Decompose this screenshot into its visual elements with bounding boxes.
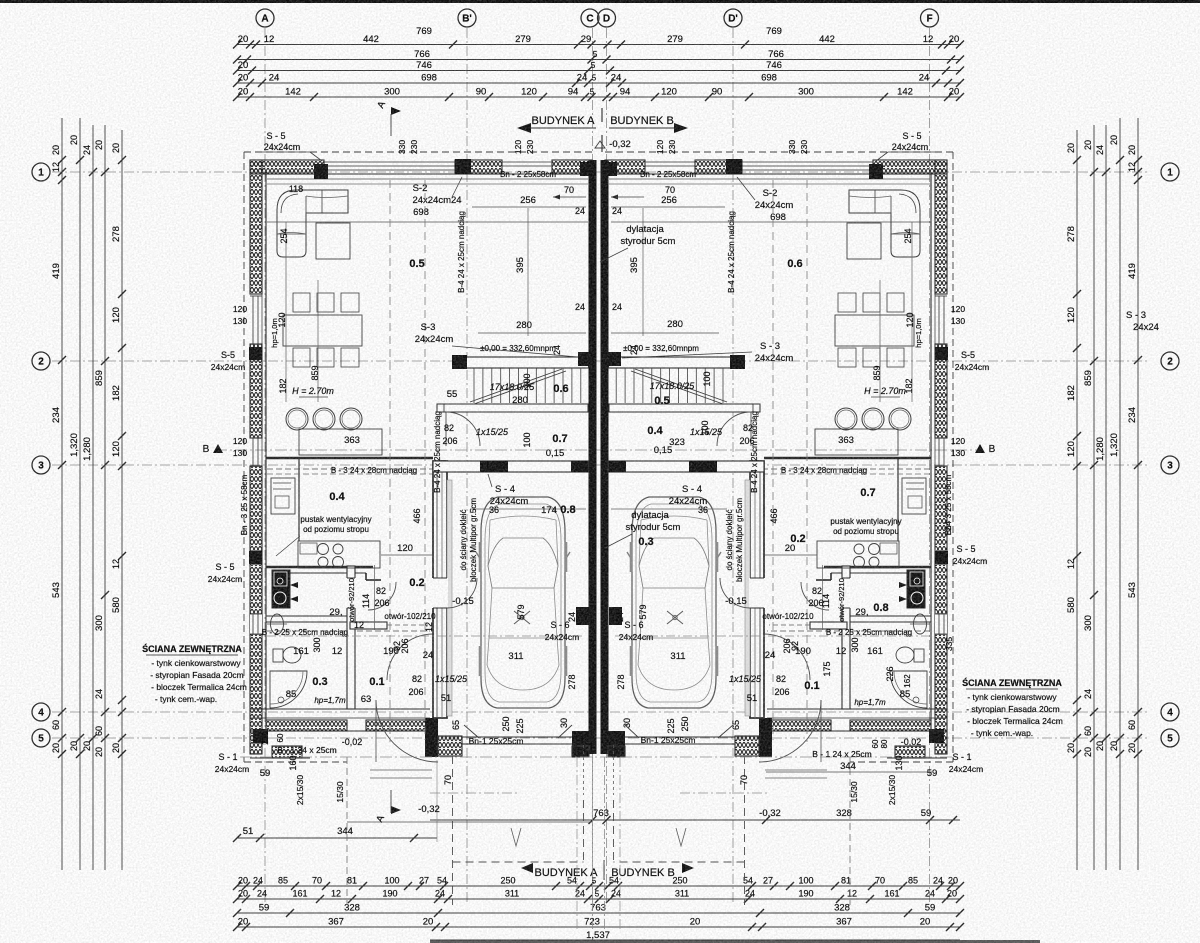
car mirrors (left) (476, 552, 481, 560)
vent duct wall (left) (298, 458, 300, 541)
dash-dot segment right y793 (680, 792, 767, 794)
garage door sill (right) (625, 736, 735, 738)
car roof (left) (489, 588, 492, 638)
bottom wall lower band / porch (right) (895, 746, 925, 758)
dining chairs top row (left) (293, 293, 310, 312)
car cross mark (right) (667, 611, 683, 624)
wall living/stair H1 (left) (455, 357, 589, 368)
door arc garage side (left) (447, 578, 477, 608)
dim line 36/174 in garage (right) (611, 508, 727, 510)
top dimension row 5 (142/300/90/120/94) (237, 96, 961, 98)
door arc room 0.7 (right) (717, 412, 751, 446)
axis circle 5 left (32, 729, 50, 747)
beam B-2 dashed (left) (267, 630, 430, 632)
bottom dim row 2 (237, 898, 960, 900)
stair treads (left) (473, 368, 475, 403)
column S-5 upper on outer wall (right) (935, 347, 948, 360)
door opening dashed otwor 102 (left) (387, 624, 428, 626)
top wall hatch segments (right) (873, 160, 947, 174)
bottom dim row 3 (237, 912, 960, 914)
car in garage (left) (481, 497, 565, 708)
garage door swing arrows (right) (718, 725, 733, 738)
vent duct wall (right) (897, 458, 899, 541)
label BUDYNEK A top (517, 123, 531, 133)
shower corner (left) (270, 671, 307, 708)
axis circle 2 right (1161, 352, 1179, 370)
right vertical dim col 4 (1093, 125, 1095, 870)
pier at central end of garage wall (right) (609, 461, 626, 472)
entrance door arc (left) (376, 700, 438, 762)
dim line 36/174 in garage (left) (470, 508, 586, 510)
corner sofa (right) (849, 190, 920, 257)
multipor insulation strip (left) (447, 480, 452, 716)
column S-5 upper on outer wall (left) (249, 347, 262, 360)
left vertical dim col 1 (419/234/543) (61, 118, 63, 870)
small arrows at kitchen (left) (290, 582, 298, 588)
kitchen counter with stove (right) (817, 541, 899, 568)
garage door gap from hall (right) (749, 578, 765, 608)
outer wall left side (left unit) (250, 160, 262, 294)
scan artifact top border (0, 0, 1200, 3)
axis circle A (256, 9, 274, 27)
top wall window lines (right) (742, 161, 873, 163)
stair handrail (left) (437, 404, 588, 412)
wall bath top H5 (left) (266, 616, 347, 622)
central wall (left) (589, 160, 597, 754)
car rear window (right) (638, 638, 710, 690)
car hood lines (left) (490, 516, 556, 520)
left vertical dim col 5 (278/120/182/120/580) (121, 130, 123, 870)
ring beam lines under top wall (right) (609, 178, 930, 180)
axis circle 5 right (1161, 729, 1179, 747)
door arc kitchen to hall (left) (368, 582, 396, 610)
porch steps (right) (765, 769, 827, 771)
car hood lines (right) (641, 516, 707, 520)
interior dim 698 left (267, 221, 588, 223)
wall kitchen/hall H4 (left) (266, 566, 373, 568)
stair diagonal cut (right) (635, 369, 727, 402)
wall piece left of garage door (left) (438, 736, 462, 756)
column S-3 on central wall right (607, 352, 621, 366)
driveway dashed outline (right) (744, 756, 746, 905)
corner sofa (left) (277, 190, 348, 257)
garage door swing arrows (left) (464, 725, 479, 738)
hall axis dash (left) (267, 635, 585, 637)
fridge (left) (271, 478, 295, 514)
wall kitchen top H2 (left) (266, 457, 433, 460)
bottom dim row 4 (237, 926, 960, 928)
left vertical dim col 4 (859/300/60) (104, 125, 106, 870)
window W3 near washbasin (left) (250, 614, 262, 634)
hall dim line 114 (left) (374, 565, 376, 630)
axis circle D (598, 9, 616, 27)
sofa table (right) (847, 223, 881, 259)
window W1 in outer wall (left) (250, 295, 262, 297)
dim 280 and level right (611, 332, 719, 334)
bottom right line 344 (766, 771, 932, 773)
S-6 pier on central wall right (609, 607, 622, 625)
top dimension row 1 (769/442/279) (237, 44, 961, 46)
kitchen counter with stove (left) (298, 541, 380, 568)
outer wall left side (right unit) (935, 160, 947, 294)
car windshield (right) (639, 538, 709, 588)
window W2 in outer wall (right) (935, 437, 947, 439)
dining table (left) (283, 315, 362, 346)
scan artifact bottom border (430, 940, 1040, 943)
door opening dashed otwor 102 (right) (769, 624, 810, 626)
stair handrail (right) (609, 404, 760, 412)
axis circle 3 right (1161, 456, 1179, 474)
bottom center pier (left) (572, 731, 589, 757)
right vertical dim col 1 (1137, 118, 1139, 870)
wall bath top H5 (right) (850, 616, 931, 622)
bottom wall inner band (left) (266, 720, 347, 731)
bottom left dim line -0,32 (347, 821, 592, 823)
wall kitchen/hall H4 (right) (824, 566, 931, 568)
dim 280 and level left (478, 332, 586, 334)
car wheels (right) (716, 542, 719, 572)
roof outline dashed (right) (605, 151, 954, 153)
wall room 0.1 top (right) (810, 622, 847, 629)
wall inner face line (left) (265, 172, 267, 738)
top dimension row 3 (746) (237, 70, 961, 72)
column S-1 bottom corner (left) (253, 729, 268, 743)
wall room 0.1 top (left) (350, 622, 387, 629)
fridge (right) (902, 478, 926, 514)
label BUDYNEK A bottom (521, 863, 533, 873)
column S-1 bottom corner (right) (929, 729, 944, 743)
right vertical dim col 2 (1119, 118, 1121, 870)
wall bath/room V3 (right) (842, 566, 850, 709)
wall bath/room V3 (left) (347, 566, 355, 709)
car mirrors (right) (716, 552, 721, 560)
dining chairs bottom row (right) (887, 348, 904, 367)
car cross mark (left) (514, 611, 530, 624)
column S-5 lower on outer wall (right) (935, 551, 948, 564)
right vertical dim col 5 (1076, 130, 1078, 870)
dim 120 hall right (765, 554, 817, 556)
window W3 near washbasin (right) (935, 614, 947, 634)
driveway arrow (left) (511, 828, 521, 846)
column S-2 at axis B' top (right) (726, 159, 742, 174)
door gap in V3 wall (left) (346, 578, 356, 608)
column S-5 lower on outer wall (left) (249, 551, 262, 564)
section marker B right (975, 444, 985, 453)
bottom dim row 1 (237, 885, 960, 887)
bottom dim line 763 / -0,32 / 328 / 59 (430, 819, 960, 821)
extension line at x437 bottom left (436, 760, 438, 842)
garage jamb dashed lines (left) (583, 745, 585, 795)
door arc garage side (right) (720, 578, 750, 608)
garage top wall H3 (left) (433, 461, 589, 472)
S-6 pier on central wall left (576, 607, 589, 625)
stair treads (right) (722, 368, 724, 403)
vertical axis lines A B C D D F (264, 28, 266, 905)
door arc hall to garage (right) (764, 634, 810, 680)
wall piece left of garage door (right) (735, 736, 759, 756)
right vertical dim col 3 (1105, 125, 1107, 870)
beam B-2 dashed (right) (767, 630, 930, 632)
door gap in V3 wall (right) (841, 578, 851, 608)
column S-2 at axis B' top (left) (455, 159, 471, 174)
poufs three circles (left) (286, 408, 308, 430)
poufs three circles (right) (889, 408, 911, 430)
axis line below center (left) (592, 757, 594, 930)
bottom dim row 5 (1537) (430, 939, 960, 941)
top dimension row 2 (766) (237, 59, 961, 61)
garage top wall H3 (right) (609, 461, 765, 472)
interior dim 698 right (611, 221, 931, 223)
entrance pier black (left) (425, 718, 438, 757)
dining chairs bottom row (left) (293, 348, 310, 367)
bottom wall inner band (right) (850, 720, 931, 731)
construction dashed line x773 right (772, 180, 774, 740)
bottom center pier (right) (608, 731, 625, 757)
sofa table (left) (316, 223, 350, 259)
driveway arrow (right) (676, 828, 686, 846)
car roof (right) (705, 588, 708, 638)
car in garage (right) (632, 497, 716, 708)
shower corner (right) (890, 671, 927, 708)
sideboard 363 (left) (299, 429, 382, 455)
wall living/stair H1 (right) (609, 357, 743, 368)
axis circle C (581, 9, 599, 27)
axis circle D' (724, 9, 742, 27)
washbasin oval (left) (271, 614, 284, 634)
axis circle 1 left (32, 163, 50, 181)
ring beam lines under top wall (left) (267, 178, 588, 180)
dining chairs top row (right) (887, 293, 904, 312)
garage door sill (left) (462, 736, 572, 738)
section line B-B dash-dot (215, 449, 982, 451)
toilet (right) (914, 649, 924, 662)
car rear window (left) (487, 638, 559, 690)
entrance pier black (right) (759, 718, 772, 757)
axis circle 2 left (32, 352, 50, 370)
driveway dashed outline (left) (452, 756, 454, 905)
column S-4 black on garage top wall (right) (689, 461, 717, 472)
stair diagonal cut (left) (470, 369, 562, 402)
hall axis dash (right) (612, 635, 930, 637)
bottom dim line 51/344 left (237, 837, 437, 839)
top wall hatch segments (left) (250, 160, 324, 174)
window W2 in outer wall (left) (250, 437, 262, 439)
wall kitchen top H2 (right) (764, 457, 931, 460)
interior dim vline living left (317, 280, 319, 402)
kitchen sink dark unit (right) (907, 570, 925, 608)
column S-4 black on garage top wall (left) (480, 461, 508, 472)
door arc room 0.7 (left) (446, 412, 480, 446)
top wall window lines (left) (324, 161, 455, 163)
axis circle 1 right (1161, 163, 1179, 181)
column at axis C top (left) (580, 162, 594, 176)
central wall (right) (601, 160, 609, 754)
sideboard 363 (right) (815, 429, 898, 455)
garage door gap from hall (left) (432, 578, 448, 608)
axis circle 4 left (32, 703, 50, 721)
multipor insulation strip (right) (745, 480, 750, 716)
column S-3 on central wall left (578, 352, 592, 366)
left vertical dim col 3 (1280) (92, 125, 94, 870)
axis circle B' (458, 9, 476, 27)
bottom wall lower band / porch (left) (272, 746, 302, 758)
garage jamb dashed lines (right) (613, 745, 615, 795)
construction dashed line x390 left (389, 180, 391, 742)
axis circle 3 left (32, 456, 50, 474)
dim 120 hall left (381, 554, 433, 556)
door arc hall to garage (left) (387, 634, 433, 680)
garage left wall (right) (750, 461, 764, 718)
hall dim line 114 (right) (822, 565, 824, 630)
axis line below center (right) (604, 757, 606, 930)
column S-2 at corner A (right) (869, 164, 883, 179)
column at axis C top (right) (603, 162, 617, 176)
kitchen sink dark unit (left) (272, 570, 290, 608)
wall inner face line (right) (930, 172, 932, 738)
left vertical dim col 2 (1320) (79, 118, 81, 870)
washbasin oval (right) (914, 614, 927, 634)
dash-dot segment left y793 (430, 792, 517, 794)
top dimension row 4 (698) (237, 82, 961, 84)
axis circle F (921, 9, 939, 27)
porch steps (left) (370, 769, 432, 771)
column S-2 at corner A (left) (314, 164, 328, 179)
toilet (left) (273, 649, 283, 662)
construction dashed line x425 left (424, 180, 426, 740)
small arrows at kitchen (right) (899, 582, 907, 588)
door arc kitchen to hall (right) (801, 582, 829, 610)
horizontal axis lines 1-5 (52, 171, 1148, 173)
entrance door arc (right) (759, 700, 821, 762)
beam B-3 dashed (right) (609, 468, 930, 470)
car wheels (left) (479, 542, 482, 572)
pier at central end of garage wall (left) (571, 461, 588, 472)
dining table (right) (835, 315, 914, 346)
axis circle 4 right (1161, 703, 1179, 721)
section marker A top (391, 107, 401, 115)
car windshield (left) (488, 538, 558, 588)
window W1 in outer wall (right) (935, 295, 947, 297)
garage left wall (left) (433, 461, 447, 718)
roof outline dashed (left) (244, 151, 593, 153)
beam B-3 dashed (left) (267, 468, 588, 470)
interior dim vline living right (879, 280, 881, 402)
construction dashed line x807 right (806, 180, 808, 742)
section marker A bottom (391, 806, 401, 814)
property dash-dot line below building (240, 756, 957, 758)
